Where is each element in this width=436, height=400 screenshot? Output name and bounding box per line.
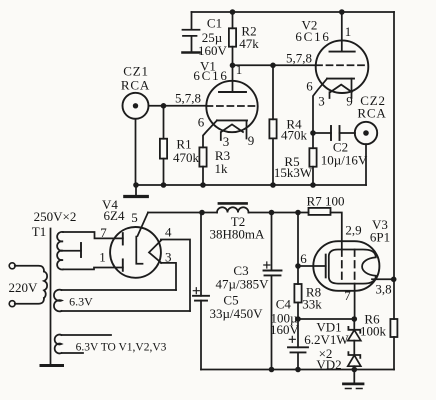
svg-text:6.3V: 6.3V [69,295,93,309]
svg-text:6.3V TO V1,V2,V3: 6.3V TO V1,V2,V3 [76,342,167,354]
wire V3 pin6 [298,265,326,267]
svg-text:5,7,8: 5,7,8 [286,51,312,66]
wire top B+ bus [192,11,395,13]
svg-text:6C16: 6C16 [295,29,330,44]
V1 pin 9 stub [246,120,248,138]
V1 cathode bar [217,119,247,121]
svg-text:1k: 1k [215,161,229,176]
V4 cathode [136,237,142,264]
svg-text:220V: 220V [9,280,39,295]
V3 dashed electrode 1 [341,250,343,284]
wire B+ line middle [249,212,309,214]
capacitor C2 [313,126,355,140]
svg-text:6P1: 6P1 [370,230,390,245]
V4 plate pin1 bar [122,259,124,270]
resistor R7 [309,208,331,215]
resistor R6 [390,319,397,337]
svg-text:9: 9 [248,133,255,148]
node junction C5 top [199,210,205,216]
wire V4 pin3 heater [161,263,176,290]
V2 plate bar [330,51,355,53]
V1 grid dashed [206,105,257,107]
wire middle ground bus [136,184,366,186]
T1 center tap [62,243,82,257]
svg-text:6.2V1W: 6.2V1W [304,332,349,347]
resistor R5 [309,133,316,185]
T1 secondary 250Vx2 winding [57,232,63,270]
node junction V3 pin6 [295,263,301,269]
node junction VD2 gnd bus [352,367,358,373]
svg-text:VD2: VD2 [316,357,341,372]
node junction gnd R1 [161,182,167,188]
svg-text:7: 7 [344,288,351,303]
wire right bus upper segment [393,12,395,319]
svg-text:33k: 33k [302,297,322,312]
node junction C3 top [269,210,275,216]
svg-text:6C16: 6C16 [193,68,228,83]
diode VD2 zener [348,352,361,369]
V2 grid dashed [316,64,368,66]
wire right bus lower segment [393,337,395,370]
wire V4 pin5 cathode to B+ [138,213,149,237]
svg-text:3: 3 [223,134,230,149]
svg-text:38H80mA: 38H80mA [210,227,266,242]
svg-text:RCA: RCA [357,106,386,121]
resistor R3 [199,147,206,185]
svg-text:6: 6 [306,79,313,94]
wire VD1 top line [298,318,354,320]
resistor R4 [269,65,276,185]
svg-text:470k: 470k [281,128,308,143]
wire V2 pin 6 cathode lead [313,79,327,133]
wire V3 pin7 [354,284,356,320]
svg-text:6: 6 [300,251,307,266]
svg-text:CZ1: CZ1 [123,64,149,79]
resistor R8 [294,284,301,347]
svg-text:7: 7 [100,225,107,240]
svg-text:RCA: RCA [121,78,150,93]
capacitor C4 [288,347,308,369]
node junction gnd R3 [200,182,206,188]
transformer T1 core [50,229,52,364]
svg-text:C1: C1 [207,16,222,31]
wire CZ1 down lead [135,119,137,185]
wire R8 branch vertical [297,213,299,285]
svg-text:47µ/385V: 47µ/385V [216,277,270,292]
svg-text:1: 1 [345,24,352,39]
svg-text:9: 9 [346,94,353,109]
wire CZ1 to V1 grid [149,105,207,107]
node junction R8 VD line [295,316,301,322]
svg-text:33µ/450V: 33µ/450V [210,306,264,321]
V2 pin 9 stub [351,79,353,98]
svg-text:160V: 160V [270,322,300,337]
svg-text:4: 4 [165,225,172,240]
node junction top bus R2 [230,9,236,15]
node junction R4 top [270,63,276,69]
V3 dashed electrode 2 [354,250,356,284]
capacitor C1 [183,12,200,53]
node junction V2 cathode C2 R5 [310,130,316,136]
svg-text:47k: 47k [239,36,259,51]
node junction gnd CZ1 [133,182,139,188]
node junction pin 3,8 [391,277,397,283]
svg-text:1: 1 [99,250,106,265]
svg-text:5,7,8: 5,7,8 [175,91,201,106]
node junction R8 branch [295,210,301,216]
T1 primary 220V winding [9,263,47,307]
V1 heater [221,124,243,132]
capacitor C5 [193,213,209,370]
V1 plate bar [219,91,246,93]
tube V2 envelope [316,40,369,93]
inductor T2 [217,203,249,212]
svg-text:5: 5 [131,210,138,225]
node junction gnd R4 [270,182,276,188]
V3 inner plate structure [329,250,376,284]
node junction VD1 top [352,316,358,322]
svg-text:10µ/16V: 10µ/16V [321,153,368,168]
connector CZ1 [123,93,149,119]
wire B+ line left [148,212,217,214]
wire V4 pin4 heater [161,240,190,312]
node junction top bus V2 plate [339,9,345,15]
svg-text:1: 1 [236,62,243,77]
node junction R1 top [161,103,167,109]
capacitor C3 [264,213,282,370]
ground symbol below VD2 [344,370,364,389]
svg-text:C4: C4 [276,297,292,312]
ground symbol T1 [41,364,63,367]
svg-text:R7 100: R7 100 [307,194,345,209]
resistor R1 [160,106,167,185]
node junction gnd R5 [310,182,316,188]
svg-text:3,8: 3,8 [375,282,391,297]
wire T1 250V top tap to V4 pin7 [63,232,123,238]
V3 grid bar pin6 [325,255,327,278]
svg-text:470k: 470k [173,150,200,165]
svg-text:160V: 160V [198,43,228,58]
tube V4 rectifier envelope [110,227,161,278]
V1 pin 3 stub [220,132,222,140]
V4 plate pin7 bar [122,233,124,244]
wire V2 plate lead [341,12,343,52]
wire T1 250V bottom tap to V4 pin1 [63,268,123,270]
svg-text:3: 3 [165,250,172,265]
wire V1 pin 6 cathode lead [203,120,217,147]
svg-text:6Z4: 6Z4 [104,208,125,223]
V2 heater [331,85,352,92]
svg-text:100k: 100k [360,324,387,339]
node junction R2 bottom [230,63,236,69]
svg-text:3: 3 [318,94,325,109]
wire V3 pin 3,8 to right bus [372,278,394,280]
V4 heater chevron [149,240,161,263]
wire R7 to V3 grid2 [331,213,342,250]
tube V1 envelope [206,81,257,132]
T1 6.3V winding 2 [55,335,111,354]
diode VD1 zener [348,319,361,355]
C5 plus sign [193,288,199,294]
tube V3 envelope [313,241,379,291]
svg-text:15k3W: 15k3W [274,165,313,180]
wire CZ2 down lead [365,144,367,185]
svg-text:6: 6 [198,115,205,130]
C3 plus sign [264,262,270,268]
wire bottom ground bus [201,369,394,371]
wire V1 grid to V2 grid (5,7,8 net) [233,64,317,66]
node junction C4 bottom [295,367,301,373]
svg-text:2,9: 2,9 [345,223,361,238]
connector CZ2 [355,122,377,144]
V2 pin 3 stub [329,92,331,98]
svg-text:250V×2: 250V×2 [34,209,77,224]
resistor R2 [229,12,236,65]
node junction C3 bottom [269,367,275,373]
svg-text:T1: T1 [32,224,46,239]
V2 cathode bar [327,78,354,80]
ground symbol below CZ1 [125,185,148,197]
V1 plate lead [232,65,234,92]
C4 plus sign [289,336,295,342]
T1 6.3V winding 1 [54,290,190,312]
